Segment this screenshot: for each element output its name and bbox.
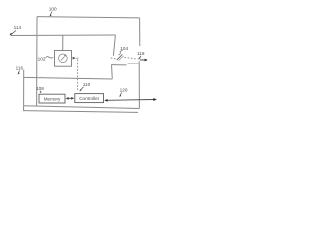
notch lower vertical bbox=[111, 65, 114, 79]
notch beam dashes bbox=[111, 57, 116, 60]
source box 102 bbox=[55, 51, 72, 67]
beam dash to elbow bbox=[76, 57, 78, 59]
source pointer arrow bbox=[61, 57, 65, 61]
leader 100 bbox=[50, 12, 52, 16]
svg-text:100: 100 bbox=[49, 7, 57, 12]
svg-text:Memory: Memory bbox=[44, 96, 61, 101]
svg-text:116: 116 bbox=[16, 65, 24, 70]
svg-text:114: 114 bbox=[14, 25, 22, 30]
interior divider line bbox=[24, 77, 113, 79]
io line 120 with double arrow bbox=[106, 99, 154, 102]
leader 120 bbox=[120, 93, 122, 97]
output beam arrow 118 bbox=[140, 59, 145, 61]
squiggle leader 104 bbox=[119, 51, 123, 55]
source circle bbox=[59, 54, 68, 63]
housing outer box bottom edge bbox=[24, 106, 140, 109]
leader 116 bbox=[18, 71, 19, 74]
svg-text:102: 102 bbox=[38, 56, 46, 61]
leader 118 bbox=[140, 56, 141, 58]
svg-text:Controller: Controller bbox=[79, 96, 99, 101]
stub from inner line to source box bbox=[62, 35, 64, 50]
base line bbox=[24, 111, 138, 113]
squiggle leader 102 bbox=[46, 57, 54, 58]
housing outer box right edge upper segment bbox=[139, 18, 141, 46]
beam dashes after window bbox=[125, 57, 138, 59]
svg-text:108: 108 bbox=[36, 86, 44, 91]
left vertical 116 bbox=[23, 70, 25, 112]
memory-controller double arrow bbox=[67, 97, 73, 99]
window element 104 bbox=[117, 54, 123, 60]
housing outer box left edge bbox=[36, 17, 38, 106]
controller box bbox=[75, 94, 104, 103]
notch shelf bbox=[111, 64, 126, 66]
inner horizontal line 114 bbox=[11, 34, 116, 37]
beam arrowhead at source output bbox=[73, 57, 76, 60]
leader 108 bbox=[39, 91, 42, 93]
svg-text:110: 110 bbox=[83, 82, 91, 87]
dashed control line down to controller bbox=[77, 60, 79, 92]
leader 110 bbox=[80, 87, 83, 91]
faint shelf extension bbox=[128, 62, 139, 64]
svg-text:118: 118 bbox=[137, 51, 145, 56]
housing outer box top edge bbox=[37, 17, 140, 18]
memory box bbox=[39, 94, 65, 103]
inner right vertical upper bbox=[113, 35, 115, 56]
svg-text:120: 120 bbox=[120, 88, 128, 93]
housing outer box right edge lower segment bbox=[138, 61, 140, 108]
leader 114 bbox=[11, 31, 16, 35]
